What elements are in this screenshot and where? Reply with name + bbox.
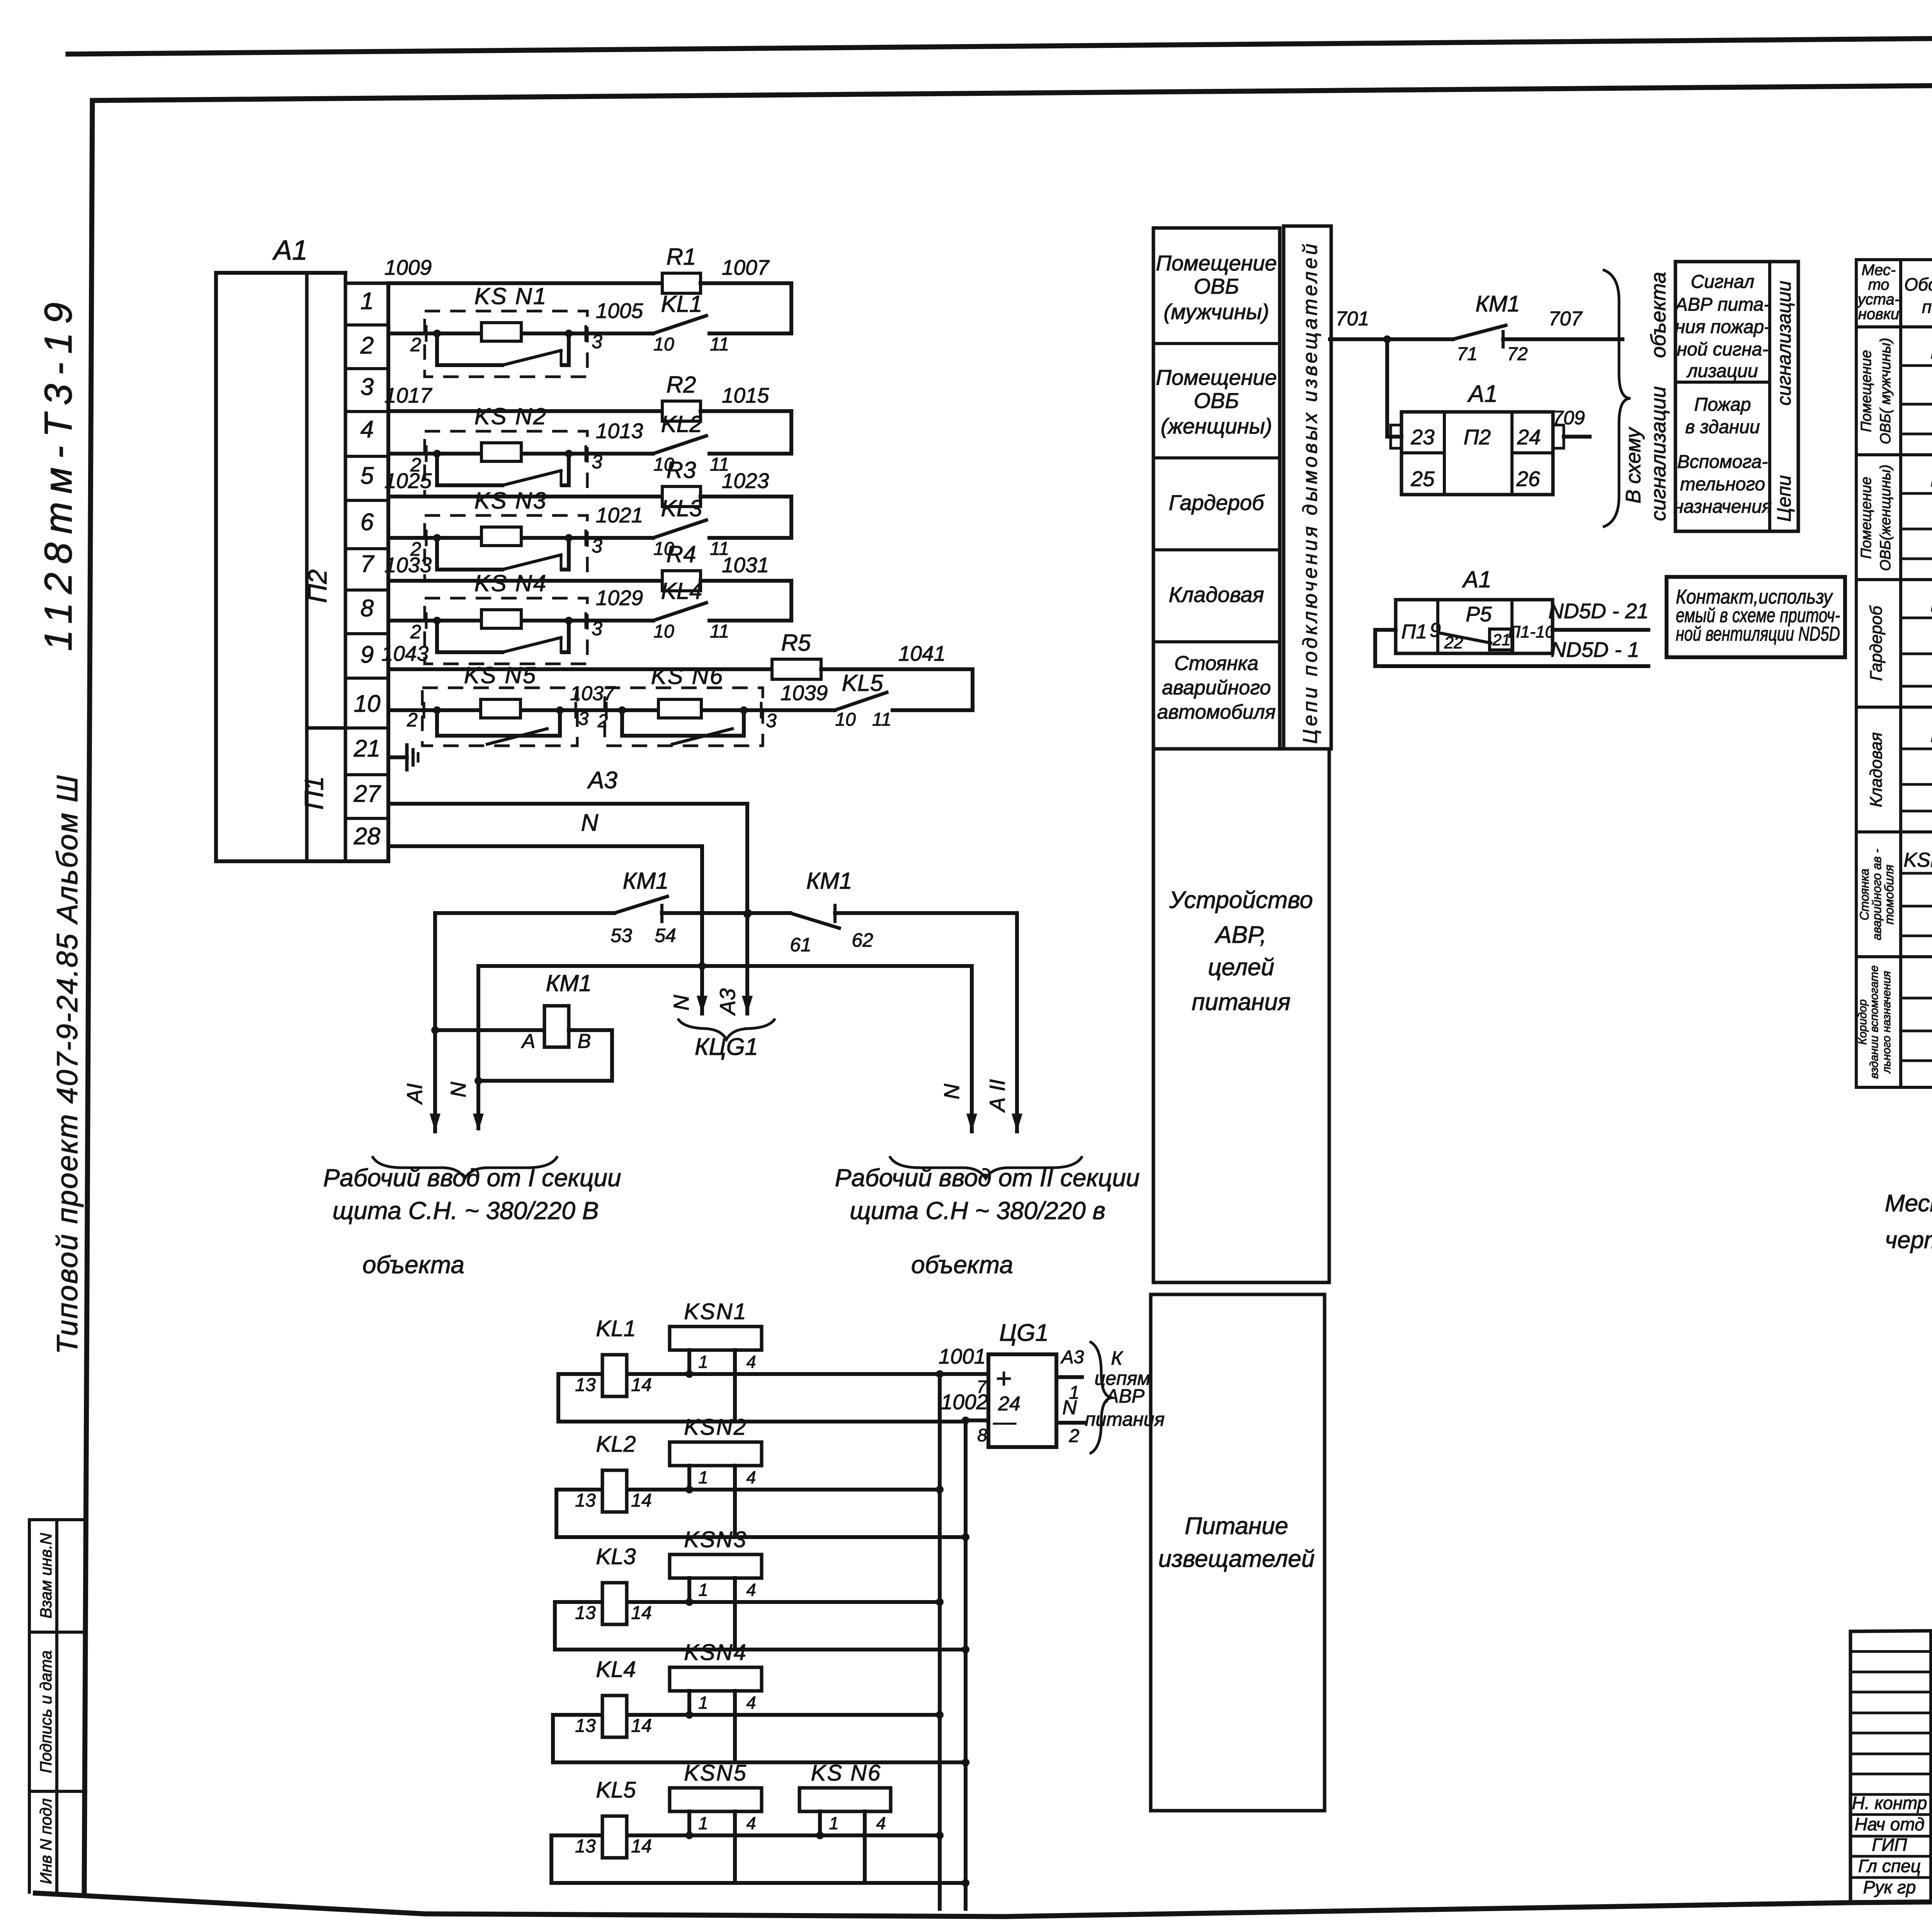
svg-text:1: 1: [698, 1813, 708, 1833]
svg-text:N: N: [939, 1083, 964, 1099]
svg-text:3: 3: [361, 374, 374, 400]
svg-text:53: 53: [611, 925, 632, 946]
svg-text:1037: 1037: [570, 682, 616, 705]
svg-text:9: 9: [361, 641, 374, 668]
svg-text:Обозначение: Обозначение: [1904, 274, 1932, 294]
svg-text:1: 1: [698, 1468, 708, 1487]
svg-text:10: 10: [653, 334, 674, 355]
svg-text:KL1: KL1: [661, 291, 702, 317]
svg-text:по схеме: по схеме: [1922, 297, 1932, 317]
svg-text:А3: А3: [587, 767, 617, 794]
svg-text:KL2: KL2: [596, 1432, 636, 1457]
svg-text:А II: А II: [985, 1079, 1009, 1113]
svg-text:R1: R1: [667, 244, 696, 270]
svg-text:1005: 1005: [596, 299, 643, 323]
svg-text:4: 4: [746, 1693, 756, 1713]
svg-text:КМ1: КМ1: [623, 868, 669, 894]
svg-text:Помещение: Помещение: [1858, 477, 1874, 559]
svg-text:23: 23: [1410, 425, 1435, 449]
svg-text:1128тм-Т3-19: 1128тм-Т3-19: [37, 294, 80, 651]
svg-text:Н. контр: Н. контр: [1852, 1793, 1927, 1813]
svg-text:2: 2: [410, 621, 421, 643]
svg-text:1002: 1002: [941, 1390, 988, 1414]
svg-text:13: 13: [575, 1836, 596, 1857]
svg-text:Коридор: Коридор: [1856, 999, 1869, 1045]
svg-text:Пожар: Пожар: [1694, 395, 1751, 415]
svg-text:Помещение: Помещение: [1858, 350, 1874, 432]
svg-text:KS N6: KS N6: [811, 1760, 882, 1786]
svg-text:701: 701: [1336, 308, 1369, 330]
svg-text:объекта: объекта: [911, 1251, 1013, 1279]
svg-text:14: 14: [631, 1836, 651, 1857]
svg-text:28: 28: [354, 823, 381, 850]
svg-text:лизации: лизации: [1686, 361, 1758, 381]
svg-text:ОВБ( мужчины): ОВБ( мужчины): [1878, 338, 1894, 444]
svg-text:А1: А1: [272, 235, 308, 266]
svg-text:3: 3: [766, 710, 777, 731]
svg-text:Цепи: Цепи: [1773, 475, 1795, 522]
svg-text:KL4: KL4: [661, 578, 702, 604]
svg-text:3: 3: [592, 451, 602, 473]
svg-text:Гардероб: Гардероб: [1867, 605, 1886, 681]
svg-text:KS N6: KS N6: [651, 663, 724, 689]
svg-text:Стоянка: Стоянка: [1857, 869, 1871, 920]
svg-text:назначения: назначения: [1673, 497, 1772, 517]
svg-text:3: 3: [592, 535, 602, 557]
svg-text:ния пожар-: ния пожар-: [1675, 317, 1770, 337]
svg-text:54: 54: [655, 925, 676, 946]
svg-text:КМ1: КМ1: [1476, 291, 1520, 316]
svg-text:В схему: В схему: [1622, 427, 1645, 503]
svg-text:R2: R2: [667, 372, 696, 398]
svg-text:27: 27: [354, 781, 381, 807]
svg-text:ОВБ: ОВБ: [1194, 388, 1239, 413]
svg-text:ГИП: ГИП: [1872, 1835, 1907, 1855]
svg-text:аварийного: аварийного: [1162, 677, 1271, 699]
svg-text:KSN1: KSN1: [1930, 339, 1932, 363]
svg-text:А3: А3: [715, 988, 740, 1016]
svg-text:1013: 1013: [596, 419, 643, 443]
svg-text:извещателей: извещателей: [1158, 1546, 1315, 1572]
svg-text:(женщины): (женщины): [1161, 414, 1272, 438]
svg-text:8: 8: [977, 1425, 987, 1445]
svg-text:10: 10: [835, 709, 856, 730]
svg-text:N: N: [581, 810, 599, 836]
svg-text:Стоянка: Стоянка: [1174, 652, 1259, 675]
svg-text:щита С.Н. ~ 380/220 В: щита С.Н. ~ 380/220 В: [333, 1197, 599, 1225]
svg-text:льного назначения: льного назначения: [1880, 971, 1893, 1074]
svg-text:13: 13: [575, 1375, 596, 1395]
svg-text:объекта: объекта: [362, 1251, 464, 1279]
svg-text:ной вентиляции ND5D: ной вентиляции ND5D: [1676, 623, 1840, 645]
svg-text:П2: П2: [303, 569, 332, 603]
svg-text:1043: 1043: [381, 641, 429, 665]
svg-text:1031: 1031: [722, 553, 769, 577]
svg-text:Сигнал: Сигнал: [1691, 272, 1755, 292]
svg-text:сигнализации: сигнализации: [1773, 281, 1795, 406]
svg-text:1007: 1007: [722, 255, 770, 279]
svg-text:4: 4: [876, 1813, 886, 1833]
svg-text:Гардероб: Гардероб: [1169, 490, 1265, 515]
svg-text:62: 62: [852, 929, 873, 951]
svg-text:13: 13: [575, 1603, 596, 1623]
svg-text:11: 11: [710, 334, 729, 355]
svg-text:14: 14: [631, 1490, 651, 1511]
svg-text:2: 2: [410, 334, 421, 355]
svg-text:KSN5: KSN5: [684, 1760, 747, 1786]
svg-text:А1: А1: [1462, 566, 1491, 592]
svg-text:А1: А1: [1467, 381, 1498, 407]
svg-text:Помещение: Помещение: [1156, 365, 1277, 389]
svg-text:ной сигна-: ной сигна-: [1677, 339, 1769, 360]
svg-text:KS N4: KS N4: [474, 570, 547, 596]
svg-text:10: 10: [653, 621, 674, 642]
svg-text:АВР,: АВР,: [1214, 922, 1267, 948]
svg-text:KSN2: KSN2: [684, 1415, 747, 1440]
svg-text:KL2: KL2: [661, 411, 702, 437]
svg-text:—: —: [993, 1409, 1016, 1435]
svg-text:тельного: тельного: [1680, 474, 1765, 495]
svg-text:3: 3: [592, 618, 602, 639]
svg-text:Р5: Р5: [1466, 602, 1492, 626]
svg-text:АВР пита-: АВР пита-: [1674, 294, 1770, 315]
svg-text:Взам инв.N: Взам инв.N: [37, 1533, 55, 1619]
svg-text:Кладовая: Кладовая: [1867, 732, 1886, 807]
svg-text:Кладовая: Кладовая: [1169, 582, 1264, 607]
svg-text:А3: А3: [1060, 1347, 1084, 1367]
svg-text:П1: П1: [299, 776, 329, 810]
svg-text:KSN4: KSN4: [1930, 722, 1932, 747]
svg-text:KL3: KL3: [661, 495, 702, 521]
svg-text:1: 1: [361, 288, 374, 315]
svg-text:KSN2: KSN2: [1930, 467, 1932, 491]
svg-text:новки: новки: [1858, 306, 1899, 323]
svg-text:Нач отд: Нач отд: [1854, 1814, 1924, 1834]
svg-text:1029: 1029: [596, 586, 643, 610]
svg-text:П1: П1: [1401, 621, 1427, 643]
svg-text:1025: 1025: [384, 469, 432, 493]
svg-text:(мужчины): (мужчины): [1163, 299, 1269, 324]
svg-text:2: 2: [597, 711, 608, 731]
svg-text:+: +: [996, 1363, 1012, 1394]
svg-text:В: В: [578, 1030, 591, 1053]
svg-text:1: 1: [829, 1813, 838, 1833]
svg-text:6: 6: [361, 509, 374, 536]
svg-text:709: 709: [1553, 407, 1585, 429]
svg-text:KS N1: KS N1: [474, 283, 547, 309]
svg-text:1015: 1015: [722, 383, 769, 407]
svg-text:П1-10: П1-10: [1508, 622, 1554, 641]
svg-text:Помещение: Помещение: [1156, 251, 1277, 275]
svg-text:Рабочий ввод от II секции: Рабочий ввод от II секции: [835, 1164, 1140, 1192]
svg-text:Цепи подключения дымовых из: Цепи подключения дымовых извещателей: [1299, 241, 1321, 744]
svg-text:целей: целей: [1208, 954, 1274, 981]
svg-text:14: 14: [631, 1375, 651, 1395]
svg-text:вздании вспомогате: вздании вспомогате: [1868, 965, 1881, 1078]
svg-text:3: 3: [592, 331, 602, 352]
svg-text:1: 1: [698, 1352, 708, 1372]
svg-text:KSN3: KSN3: [684, 1527, 747, 1552]
svg-text:Рабочий ввод от I секции: Рабочий ввод от I секции: [323, 1164, 621, 1192]
svg-text:KL5: KL5: [596, 1777, 636, 1803]
svg-text:14: 14: [631, 1603, 651, 1623]
svg-text:1041: 1041: [898, 641, 946, 665]
svg-text:4: 4: [746, 1580, 756, 1600]
svg-text:1033: 1033: [384, 553, 432, 577]
svg-text:10: 10: [354, 690, 381, 717]
svg-text:А: А: [521, 1030, 536, 1053]
svg-text:щита С.Н ~ 380/220 в: щита С.Н ~ 380/220 в: [850, 1197, 1105, 1225]
svg-text:2: 2: [406, 709, 418, 731]
svg-text:ЦG1: ЦG1: [999, 1320, 1049, 1346]
svg-text:Места установки извещателей: Места установки извещателей указаны на: [1885, 1190, 1932, 1217]
svg-text:24: 24: [1517, 425, 1541, 449]
svg-text:1021: 1021: [596, 503, 643, 527]
svg-text:чертеже N ЭП1 лист 7: чертеже N ЭП1 лист 7: [1885, 1227, 1932, 1253]
svg-text:13: 13: [575, 1490, 596, 1511]
svg-text:14: 14: [631, 1716, 651, 1736]
svg-text:1001: 1001: [939, 1344, 986, 1368]
svg-text:N: N: [1062, 1396, 1077, 1419]
svg-text:Рук гр: Рук гр: [1863, 1877, 1916, 1897]
svg-text:2: 2: [360, 332, 374, 359]
svg-text:Питание: Питание: [1185, 1513, 1288, 1539]
svg-text:в здании: в здании: [1685, 417, 1760, 437]
svg-text:KSN4: KSN4: [684, 1640, 747, 1665]
svg-text:сигнализации: сигнализации: [1647, 386, 1670, 521]
svg-text:1023: 1023: [722, 469, 769, 493]
svg-text:питания: питания: [1192, 989, 1291, 1015]
svg-text:KS N5: KS N5: [464, 662, 537, 688]
svg-text:4: 4: [746, 1352, 756, 1372]
svg-text:1: 1: [698, 1580, 708, 1600]
svg-text:Вспомога-: Вспомога-: [1677, 452, 1768, 472]
svg-text:25: 25: [1410, 467, 1435, 491]
svg-text:KL5: KL5: [842, 670, 883, 696]
svg-text:21: 21: [354, 735, 381, 762]
svg-text:KL4: KL4: [596, 1657, 636, 1682]
svg-text:61: 61: [790, 934, 811, 956]
svg-text:КМ1: КМ1: [806, 868, 852, 894]
svg-text:Устройство: Устройство: [1169, 887, 1313, 913]
svg-text:питания: питания: [1085, 1408, 1165, 1430]
svg-text:9: 9: [1430, 619, 1441, 641]
svg-text:АВР: АВР: [1105, 1385, 1145, 1407]
svg-text:8: 8: [361, 595, 374, 622]
svg-text:KS N2: KS N2: [474, 403, 547, 429]
svg-text:П2: П2: [1464, 425, 1491, 449]
svg-text:К: К: [1111, 1347, 1123, 1369]
svg-text:томобиля: томобиля: [1882, 865, 1896, 925]
svg-text:5: 5: [361, 463, 374, 489]
svg-text:7: 7: [361, 551, 375, 577]
svg-text:707: 707: [1549, 308, 1583, 330]
svg-text:72: 72: [1507, 344, 1527, 364]
svg-text:КЦG1: КЦG1: [695, 1034, 758, 1060]
svg-text:1017: 1017: [384, 383, 433, 407]
svg-text:R5: R5: [781, 630, 811, 656]
svg-text:ND5D - 1: ND5D - 1: [1551, 638, 1639, 662]
svg-text:KS N3: KS N3: [474, 488, 547, 514]
svg-text:13: 13: [575, 1716, 596, 1736]
svg-text:Инв N подл: Инв N подл: [37, 1798, 55, 1884]
svg-text:KSN5,KSN6: KSN5,KSN6: [1904, 849, 1932, 871]
svg-text:ОВБ(женщины): ОВБ(женщины): [1878, 464, 1894, 571]
svg-text:R4: R4: [667, 541, 696, 567]
svg-text:Типовой проект 407-9-24.85 Ал: Типовой проект 407-9-24.85 Альбом Ш: [51, 774, 84, 1354]
svg-text:Подпись и дата: Подпись и дата: [37, 1650, 55, 1773]
svg-text:2: 2: [1069, 1426, 1080, 1446]
svg-text:аварийного ав -: аварийного ав -: [1870, 849, 1884, 940]
svg-text:3: 3: [578, 709, 589, 729]
svg-text:26: 26: [1516, 467, 1540, 491]
svg-text:71: 71: [1457, 344, 1477, 364]
svg-text:объекта: объекта: [1647, 272, 1670, 358]
svg-text:11: 11: [872, 709, 891, 730]
svg-text:1039: 1039: [781, 681, 828, 705]
svg-text:KSN3: KSN3: [1930, 592, 1932, 616]
svg-text:1: 1: [698, 1693, 708, 1713]
svg-text:ОВБ: ОВБ: [1194, 274, 1239, 298]
svg-text:Гл спец: Гл спец: [1858, 1856, 1921, 1876]
svg-text:KL3: KL3: [596, 1544, 636, 1569]
svg-text:автомобиля: автомобиля: [1157, 701, 1276, 723]
svg-text:АI: АI: [402, 1083, 427, 1105]
svg-text:4: 4: [746, 1468, 756, 1487]
svg-text:ND5D - 21: ND5D - 21: [1548, 599, 1649, 623]
svg-text:4: 4: [746, 1813, 756, 1833]
svg-text:4: 4: [361, 416, 374, 443]
svg-text:KL1: KL1: [596, 1316, 636, 1341]
svg-text:KSN1: KSN1: [684, 1299, 747, 1324]
svg-text:N: N: [669, 995, 693, 1010]
svg-text:11: 11: [710, 621, 729, 642]
svg-text:R3: R3: [667, 457, 696, 483]
svg-text:N: N: [446, 1082, 470, 1097]
svg-text:КМ1: КМ1: [546, 970, 592, 996]
svg-text:1009: 1009: [384, 255, 432, 279]
